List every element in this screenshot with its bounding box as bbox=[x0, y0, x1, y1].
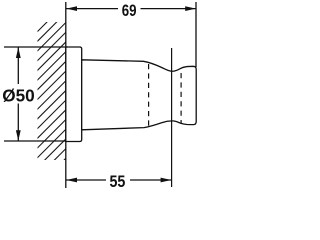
svg-text:69: 69 bbox=[122, 1, 137, 20]
svg-text:Ø50: Ø50 bbox=[2, 85, 35, 105]
hidden feature dashed line (inner, x=148.6) bbox=[148, 64, 150, 127]
dimension 69: left arrow bbox=[66, 6, 77, 11]
svg-text:55: 55 bbox=[109, 172, 125, 190]
dimension 69: line bbox=[66, 8, 118, 10]
dimension 69: right arrow bbox=[185, 6, 196, 11]
dimension Ø50: top arrow bbox=[16, 47, 21, 58]
dimension 55: left arrow bbox=[66, 178, 77, 183]
hidden feature dashed line (near tip, x=181.3) bbox=[180, 73, 182, 124]
flange (mounting plate, side view) bbox=[66, 47, 82, 142]
dimension 55: line bbox=[66, 179, 106, 181]
dimension 55: right arrow bbox=[161, 178, 172, 183]
dimension Ø50: extension lines bbox=[4, 46, 68, 48]
55 right extension line (through waist, x=171.6) bbox=[171, 48, 173, 187]
wall face line + left extension line (69/55 dims) bbox=[65, 2, 67, 188]
dimension Ø50: line bbox=[17, 47, 19, 84]
69 right extension line (above tip face, x=196) bbox=[195, 2, 197, 67]
dimension Ø50: bottom arrow bbox=[16, 130, 21, 141]
wall hatching bbox=[30, 0, 70, 194]
holder body outline bbox=[82, 60, 197, 130]
